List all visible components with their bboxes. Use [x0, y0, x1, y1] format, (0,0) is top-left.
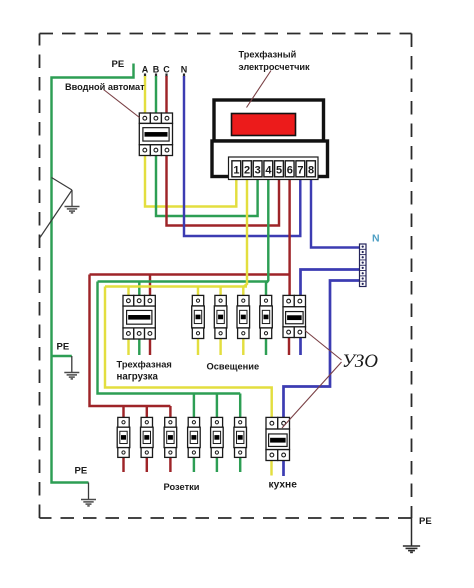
svg-text:C: C: [163, 65, 170, 75]
svg-text:PE: PE: [419, 516, 432, 527]
svg-text:4: 4: [265, 164, 272, 176]
svg-text:Розетки: Розетки: [164, 482, 200, 492]
svg-text:7: 7: [297, 164, 303, 176]
svg-text:8: 8: [308, 164, 314, 176]
svg-text:Вводной автомат: Вводной автомат: [65, 82, 145, 92]
svg-text:электросчетчик: электросчетчик: [239, 62, 311, 72]
svg-text:N: N: [181, 65, 188, 75]
svg-text:A: A: [142, 65, 149, 75]
svg-text:Освещение: Освещение: [207, 362, 260, 372]
svg-text:PE: PE: [112, 59, 125, 70]
svg-text:2: 2: [244, 164, 250, 176]
svg-text:B: B: [153, 65, 160, 75]
svg-text:нагрузка: нагрузка: [117, 371, 159, 382]
svg-text:1: 1: [233, 164, 239, 176]
svg-text:Трехфазная: Трехфазная: [117, 359, 172, 369]
svg-text:5: 5: [276, 164, 282, 176]
svg-text:PE: PE: [57, 342, 70, 353]
svg-text:УЗО: УЗО: [342, 351, 378, 372]
svg-text:3: 3: [255, 164, 261, 176]
svg-text:PE: PE: [75, 466, 88, 477]
svg-text:N: N: [372, 233, 380, 245]
svg-text:кухне: кухне: [269, 480, 298, 491]
svg-text:Трехфазный: Трехфазный: [239, 50, 297, 60]
svg-text:6: 6: [287, 164, 293, 176]
